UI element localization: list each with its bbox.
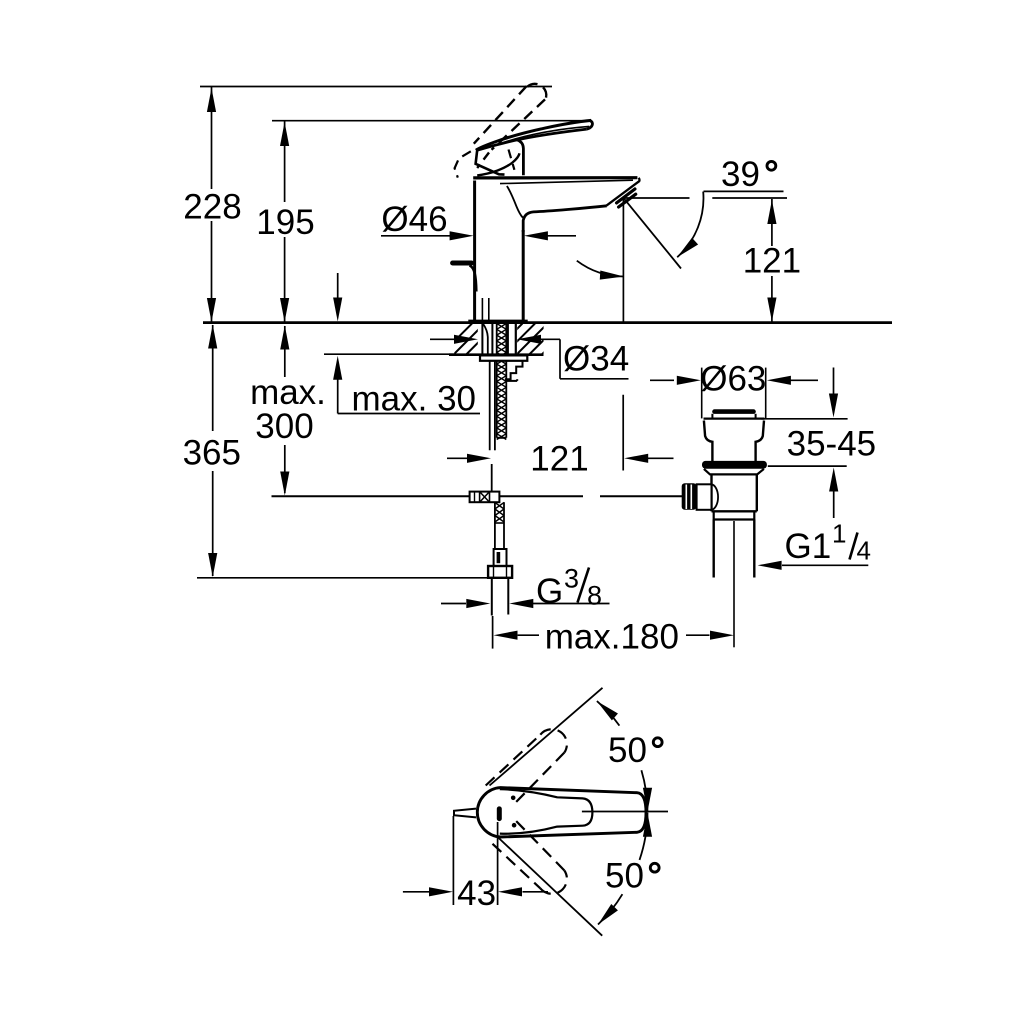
svg-text:300: 300 — [255, 407, 313, 446]
svg-text:4: 4 — [857, 536, 871, 566]
svg-text:35-45: 35-45 — [787, 425, 877, 464]
svg-text:228: 228 — [183, 188, 241, 227]
svg-text:G1: G1 — [785, 527, 832, 566]
svg-text:195: 195 — [256, 203, 314, 242]
svg-text:121: 121 — [743, 242, 801, 281]
svg-text:Ø63: Ø63 — [700, 360, 766, 399]
svg-text:39: 39 — [721, 155, 760, 194]
svg-text:50: 50 — [605, 857, 644, 896]
svg-text:G: G — [536, 572, 563, 611]
svg-text:max.180: max.180 — [545, 618, 679, 657]
svg-text:1: 1 — [832, 519, 846, 549]
svg-text:Ø34: Ø34 — [563, 340, 629, 379]
svg-text:8: 8 — [587, 581, 602, 611]
svg-text:50: 50 — [608, 731, 647, 770]
svg-text:Ø46: Ø46 — [381, 200, 447, 239]
svg-text:365: 365 — [183, 434, 241, 473]
svg-text:3: 3 — [564, 564, 579, 594]
svg-text:43: 43 — [457, 874, 496, 913]
svg-text:max. 30: max. 30 — [352, 380, 477, 419]
svg-text:121: 121 — [530, 440, 588, 479]
